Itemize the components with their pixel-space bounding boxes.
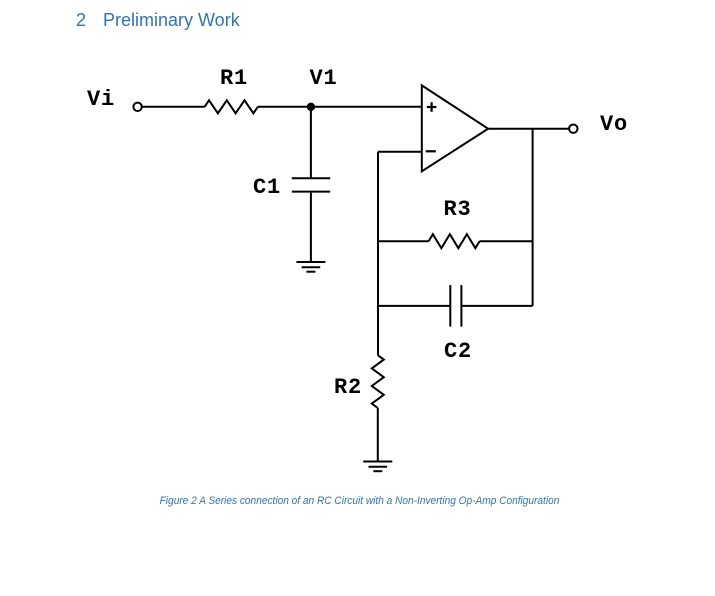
capacitor C2 xyxy=(450,285,461,327)
svg-text:V1: V1 xyxy=(310,66,338,91)
svg-text:C1: C1 xyxy=(253,175,281,200)
capacitor C1 xyxy=(292,178,330,191)
wire C1 to ground xyxy=(310,192,312,262)
wire C2 right lead xyxy=(461,305,532,307)
svg-text:Vi: Vi xyxy=(87,87,115,112)
wire C2 left lead xyxy=(378,305,450,307)
wire left feedback rail xyxy=(377,152,379,355)
svg-text:R3: R3 xyxy=(444,197,472,222)
wire right feedback rail xyxy=(532,129,534,306)
op-amp minus symbol xyxy=(426,150,436,152)
wire V1 down to C1 xyxy=(310,107,312,178)
input terminal Vi xyxy=(133,103,141,111)
ground under C1 xyxy=(296,262,325,272)
resistor R3 xyxy=(429,234,480,248)
op-amp plus symbol xyxy=(427,102,437,112)
resistor R2 xyxy=(372,355,384,408)
wire R1 to op-amp + input xyxy=(258,106,422,108)
node V1 junction dot xyxy=(307,103,315,111)
figure caption xyxy=(31,495,689,507)
wire op-amp output xyxy=(488,128,569,130)
svg-text:R2: R2 xyxy=(334,375,362,400)
svg-text:Vo: Vo xyxy=(600,112,628,137)
wire Vi to R1 xyxy=(142,106,205,108)
op-amp U1 triangle xyxy=(422,85,488,171)
wire R2 to ground xyxy=(377,408,379,461)
svg-text:R1: R1 xyxy=(220,66,248,91)
svg-text:C2: C2 xyxy=(444,339,472,364)
heading: 2 Preliminary Work xyxy=(75,9,77,11)
resistor R1 xyxy=(205,100,258,113)
output terminal Vo xyxy=(569,125,577,133)
ground under R2 xyxy=(363,462,392,472)
wire R3 left lead xyxy=(378,240,429,242)
wire inverting input stub xyxy=(378,151,422,153)
wire R3 right lead xyxy=(480,240,533,242)
